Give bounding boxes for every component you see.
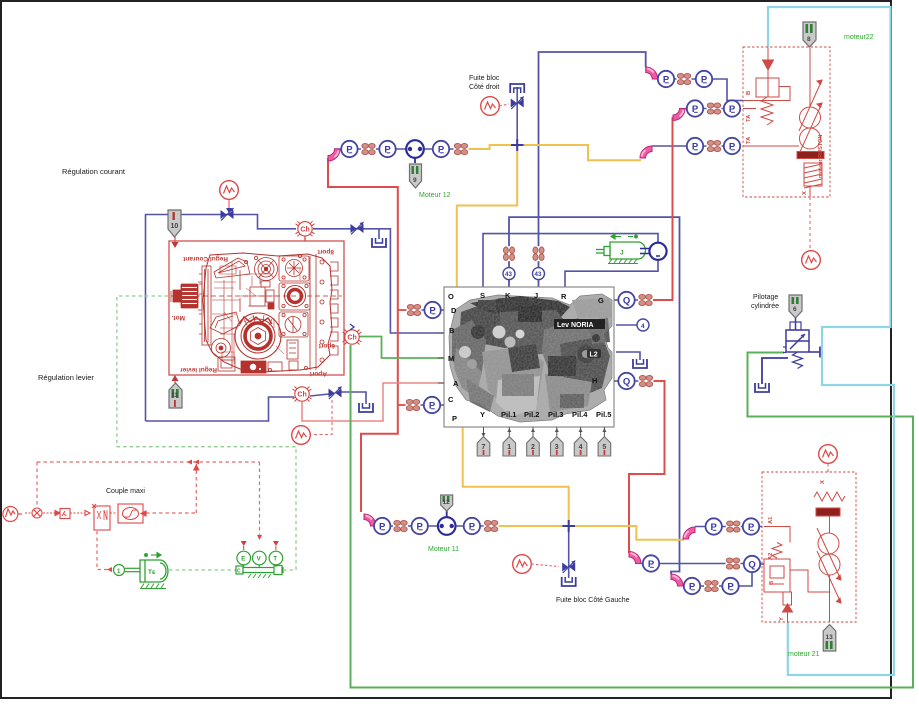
moteur22 relief valve square: [756, 78, 779, 97]
svg-text:J: J: [534, 291, 538, 300]
svg-text:Couple maxi: Couple maxi: [106, 488, 145, 495]
svg-text:10: 10: [171, 223, 179, 230]
wire: red branch into C row coupler: [398, 404, 406, 406]
moteur21 outer box: [762, 472, 856, 622]
wire: navy regulation loop left (pump 10port circuit): [146, 215, 297, 422]
moteur22 internal port lines: [743, 87, 790, 101]
wire: thin red A port net from Aport valve: [302, 383, 444, 421]
wire: navy moteur22 row1: [657, 79, 743, 101]
motor circle moteur11: [438, 517, 456, 535]
flywheel circle: [649, 243, 666, 260]
svg-text:E: E: [241, 557, 245, 563]
wire: navy moteur21 row2: [641, 563, 745, 565]
svg-text:D: D: [451, 306, 457, 315]
wire: red G port net up to moteur22 row2 elbow: [652, 117, 673, 300]
motor J arrows: [611, 234, 637, 239]
green motor J body: [596, 242, 645, 259]
red arrow from tank 10 into pump box: [172, 242, 179, 248]
motor circle moteur12: [406, 140, 424, 158]
svg-text:Moteur 11: Moteur 11: [428, 546, 459, 553]
svg-text:P: P: [452, 414, 457, 423]
wire: navy S port to flywheel circle top: [483, 234, 658, 287]
elbow moteur12 left: [328, 149, 340, 161]
moteur22 outer box: [743, 47, 830, 197]
red flags above E and T: [241, 541, 279, 550]
svg-text:moteur22: moteur22: [844, 34, 874, 41]
P sensor: [433, 141, 449, 157]
svg-text:12: 12: [443, 499, 451, 506]
wire: green dashed shaft feedback pump to torque sensor: [117, 296, 296, 570]
wire: navy stub block right to circle 4: [616, 324, 637, 326]
svg-text:Regul Courant: Regul Courant: [182, 255, 228, 262]
pump bottom housing details: [218, 357, 235, 371]
motor J hatch: [608, 259, 638, 264]
P sensor row1: [696, 71, 712, 87]
P sensor on C row: [424, 397, 440, 413]
svg-text:C: C: [448, 395, 454, 404]
svg-text:8port: 8port: [317, 248, 334, 255]
svg-text:Regul levier: Regul levier: [180, 366, 217, 373]
tank bracket drain near pump top: [372, 238, 386, 247]
coupler m21 row3: [704, 580, 719, 593]
elbow row1: [646, 67, 658, 79]
P sensor on D row: [424, 302, 440, 318]
svg-text:X: X: [802, 191, 808, 195]
wire: navy moteur22 row2: [685, 108, 740, 110]
P sensor m21 row3: [722, 578, 738, 594]
moteur22 dashed pilot to gauge: [809, 197, 811, 250]
svg-text:Régulation courant: Régulation courant: [62, 167, 126, 176]
svg-text:K: K: [505, 291, 511, 300]
wire: navy C port row: [406, 404, 444, 406]
pilotage proportional valve: [783, 318, 809, 369]
tank 9 under moteur12: [410, 164, 422, 188]
P sensor: [412, 518, 428, 534]
svg-text:R: R: [561, 292, 567, 301]
svg-text:TA: TA: [746, 114, 752, 122]
center block frame: [444, 287, 614, 427]
svg-text:1: 1: [507, 444, 511, 451]
svg-text:Y: Y: [480, 410, 485, 419]
wire: yellow moteur11 row to moteur21 row1 elbow: [497, 526, 684, 540]
wire: navy fuite gauche valve drop from yellow junction: [568, 526, 570, 578]
gain block k: [60, 509, 90, 519]
svg-text:3: 3: [555, 444, 559, 451]
tank 13 under moteur21: [823, 625, 836, 652]
svg-text:G: G: [598, 296, 604, 305]
wire: red dashed drop to multiplier: [36, 462, 38, 506]
svg-text:B: B: [769, 581, 775, 585]
svg-text:Pil.1: Pil.1: [501, 410, 516, 419]
tank 10 above pump box: [168, 210, 181, 237]
label Lev NORIA: [554, 319, 605, 329]
svg-text:J: J: [620, 250, 624, 257]
pump lower right cylinder: [287, 340, 298, 359]
tank bracket (inverted) above fuite droit valve: [510, 84, 524, 93]
svg-text:13: 13: [826, 634, 834, 641]
elbow row2 (from G red line): [673, 109, 685, 121]
svg-text:cylindrée: cylindrée: [751, 303, 779, 310]
wire: green big loop from Ch 6port to pilotage valve: [351, 345, 914, 688]
wire: navy pilotage valve right stub to cyan line: [809, 351, 820, 353]
wire: cyan pilot net moteur21 Y to moteur22 T: [768, 7, 894, 675]
circle 4 sensor right of block: [637, 319, 649, 331]
svg-text:B: B: [449, 326, 455, 335]
wire: red dashed couple maxi feedback bus: [37, 461, 260, 463]
moteur22 hydraulic motor: [809, 48, 811, 107]
svg-text:11: 11: [171, 392, 178, 399]
svg-text:Côté droit: Côté droit: [469, 84, 499, 91]
wire: navy L2 port to tank bracket: [616, 352, 640, 360]
wire: yellow P port net down to moteur11 junction: [463, 427, 569, 526]
svg-text:C: C: [237, 569, 241, 575]
pump main casing outline: [203, 253, 332, 372]
label L2: [587, 349, 601, 358]
tank 8 above moteur22: [803, 22, 816, 47]
tank bracket for L2: [633, 359, 647, 368]
tank bracket for Aport drain: [359, 403, 373, 412]
svg-text:4: 4: [579, 444, 583, 451]
svg-text:Pil.2: Pil.2: [524, 410, 539, 419]
coupler on D row: [407, 304, 422, 317]
wire: navy moteur11 row line: [376, 525, 497, 527]
moteur21 internal lines: [764, 527, 790, 543]
wire: green M port net from Ch 6port: [359, 337, 444, 359]
moteur21 outlet with arrow: [783, 592, 792, 605]
svg-text:T: T: [273, 557, 277, 563]
svg-text:A: A: [453, 379, 459, 388]
svg-text:A2: A2: [768, 553, 774, 560]
svg-text:Fuite bloc: Fuite bloc: [469, 75, 500, 82]
pump shaft spline comb: [173, 284, 198, 308]
svg-text:M: M: [448, 354, 454, 363]
svg-text:Pil.5: Pil.5: [596, 410, 611, 419]
moteur22 inlet T line with arrow: [767, 48, 769, 60]
center block photo drawing: [449, 294, 612, 422]
X valve right of Aport: [329, 387, 342, 400]
gauge above pump inlet X valve: [220, 181, 239, 200]
wire: red branch into D row coupler: [398, 309, 407, 311]
wire: navy moteur21 row1 into valve A1: [695, 526, 762, 528]
block port labels: [448, 291, 611, 423]
wire: red dashed saturation output feedback: [195, 462, 197, 513]
wire: navy fuite droit valve drop to yellow junction: [516, 87, 518, 145]
svg-text:Régulation levier: Régulation levier: [38, 373, 94, 382]
coupler row3: [707, 140, 722, 153]
wire: green stub Ch to pump box: [344, 336, 346, 338]
coupler under J port: [532, 246, 545, 261]
P sensor row2: [724, 100, 740, 116]
wire: red dashed minmax block down to engine input circle: [97, 531, 112, 570]
coupler row2: [707, 102, 722, 115]
svg-text:X: X: [820, 480, 826, 484]
moteur21 valve square: [764, 559, 790, 592]
Q sensor on H row: [618, 373, 634, 389]
left edge port stubs: [438, 300, 620, 405]
pump outer red box: [169, 241, 344, 375]
Q sensor m21 row2: [744, 556, 760, 572]
moteur21 top spring and brake: [814, 492, 845, 501]
coupler m21 row1: [726, 520, 741, 533]
coupling to flywheel: [640, 248, 649, 250]
svg-text:Pil.3: Pil.3: [548, 410, 563, 419]
pilot tanks 7 and 1-5 under block: [477, 437, 610, 457]
moteur21 valve spring above: [772, 543, 782, 559]
moteur21 hydraulic motor: [818, 533, 839, 554]
Ch valve 8port above pump box: [296, 221, 315, 236]
wire: drain stub to tank bracket near pump top: [378, 229, 380, 239]
wire: navy R port to flywheel circle bottom: [565, 259, 658, 287]
pump lower-left bearing circle: [212, 339, 231, 358]
coupler: [454, 143, 469, 156]
wire: navy H port row: [614, 380, 652, 382]
svg-text:6: 6: [793, 306, 797, 313]
tank 11 below pump box: [169, 383, 182, 408]
svg-text:4: 4: [641, 323, 645, 330]
junction cross on yellow at fuite gauche: [562, 520, 575, 532]
svg-text:H: H: [592, 376, 597, 385]
multiplier circle: [25, 508, 60, 518]
engine hatch: [140, 584, 166, 589]
pump top boss circles: [255, 258, 278, 281]
gauge below Aport with dashed line: [313, 400, 332, 435]
P sensor row2: [687, 100, 703, 116]
coupler row1: [677, 73, 692, 86]
wire: navy G port row: [614, 299, 652, 301]
svg-text:7: 7: [482, 444, 486, 451]
svg-text:Lev NORIA: Lev NORIA: [557, 322, 594, 329]
P sensor row3: [724, 138, 740, 154]
P sensor row1: [658, 71, 674, 87]
wire: navy moteur21 row3 and rise to Q circle: [683, 571, 752, 586]
elbow row3 (from yellow): [640, 146, 652, 158]
pump right end flange scallops: [310, 254, 316, 370]
svg-text:O: O: [448, 292, 454, 301]
svg-text:Fuite bloc Côté Gauche: Fuite bloc Côté Gauche: [556, 597, 630, 604]
pump right valve section upper: [279, 256, 309, 281]
Ch valve 6port right of pump box: [343, 330, 362, 345]
gauge fuite droit: [481, 97, 500, 116]
coupler: [361, 143, 376, 156]
X valve fuite droit: [511, 97, 524, 110]
torque sensor ground hatch: [248, 574, 271, 578]
pump mounting flange: [202, 266, 211, 345]
pump bitmap drawing: [171, 253, 342, 373]
X valve fuite gauche: [562, 561, 575, 574]
svg-text:S: S: [480, 291, 485, 300]
wire: yellow net moteur12 to moteur22 row3: [467, 145, 641, 160]
svg-text:V: V: [257, 557, 261, 563]
P sensor: [379, 141, 395, 157]
P sensor: [464, 518, 480, 534]
elbow moteur21 row1 (yellow): [683, 527, 695, 539]
junction cross on yellow line: [511, 139, 524, 151]
coupler on C row: [406, 399, 421, 412]
gauge under moteur22: [802, 251, 821, 270]
pump swash bracket: [210, 312, 240, 334]
arrows on feedback bus: [187, 460, 192, 465]
svg-text:B: B: [746, 91, 752, 95]
check circle 43 under K coupler: [503, 268, 515, 280]
wire: navy J net from block J port up and over to moteur22 row1: [539, 52, 646, 287]
coupler m21 row2: [726, 557, 741, 570]
bottom port stubs with arrows and tanks: [482, 427, 607, 437]
X valve on regulation line: [221, 208, 234, 221]
Q sensor on G row: [618, 292, 634, 308]
P sensor: [341, 141, 357, 157]
svg-text:Aport: Aport: [309, 370, 327, 377]
X valve right of 8port: [351, 222, 364, 235]
moteur22 rotated labels: [746, 91, 824, 195]
coupler: [393, 520, 408, 533]
gauge above moteur21: [819, 445, 838, 464]
svg-text:Pil.4: Pil.4: [572, 410, 588, 419]
moteur21 rotated labels: [768, 480, 826, 621]
wire: navy K net from block K port up right and down to moteur21 row3: [509, 217, 680, 574]
svg-text:L2: L2: [590, 352, 598, 359]
wire: red dashed bus down to V gauge: [259, 462, 261, 540]
saturation block: [118, 465, 199, 523]
wire: navy Q circle to valve A2: [758, 563, 764, 565]
gauge fuite gauche: [513, 555, 532, 574]
tank 6: [789, 295, 802, 318]
wire: navy from Ch 8port to X valve and drain node: [313, 229, 444, 333]
pump right valve section middle: [279, 283, 310, 310]
svg-text:A1: A1: [768, 516, 774, 524]
wire: red H port net down to moteur21 row2 elbow: [629, 381, 665, 553]
wire: navy from Aport valve to X valve and tank: [310, 394, 329, 396]
pump big rotary group: [235, 313, 281, 359]
svg-text:Moteur 12: Moteur 12: [419, 192, 451, 199]
tank 12 above moteur11: [441, 495, 453, 511]
wire: yellow branch down to O port: [457, 145, 517, 287]
svg-text:2: 2: [531, 444, 535, 451]
engine input circle 1: [114, 565, 141, 576]
coupler: [484, 520, 499, 533]
P sensor m21 row3: [684, 578, 700, 594]
wire: red dashed chain saturation to bus with arrows: [146, 512, 196, 514]
svg-text:moteur 21: moteur 21: [788, 651, 820, 658]
pump right valve section lower: [279, 312, 308, 337]
wire: green dashed engine shaft link: [169, 569, 236, 571]
svg-text:Mot.: Mot.: [171, 314, 185, 321]
torque sensor assembly E V T: [236, 551, 283, 574]
red arrow up from tank 11 into pump box: [172, 375, 179, 381]
moteur22 relief spring: [761, 97, 773, 125]
pump top bracket: [214, 258, 250, 278]
svg-text:8: 8: [807, 36, 811, 43]
svg-text:Y: Y: [779, 617, 785, 621]
svg-text:5: 5: [602, 444, 606, 451]
wire: navy pilot line from pilotage valve to tank bracket: [762, 358, 788, 384]
P sensor row3: [687, 138, 703, 154]
moteur22 brake block: [797, 152, 824, 159]
P sensor m21 row2: [643, 555, 659, 571]
wire: navy bottom of regulation loop to Aport valve: [146, 397, 295, 421]
check circle 43 under J coupler: [533, 268, 545, 280]
coupler on H row: [639, 375, 654, 388]
P sensor m21 row1: [743, 518, 759, 534]
pump center plate: [250, 287, 265, 306]
svg-text:9: 9: [413, 177, 417, 184]
P sensor m21 row1: [706, 518, 722, 534]
coupler on G row: [638, 294, 653, 307]
elbow m21 row2: [629, 552, 641, 564]
svg-text:TA: TA: [746, 136, 752, 144]
svg-text:Pilotage: Pilotage: [753, 294, 778, 301]
tank bracket pilotage: [755, 383, 769, 392]
engine body: [140, 560, 168, 582]
P sensor: [374, 518, 390, 534]
wire: red D/C distribution net from moteur12 elbow down to moteur11 elbow: [328, 158, 398, 512]
pump dashed centerline: [171, 295, 342, 297]
Ch valve Aport below pump box: [293, 387, 312, 402]
wire: navy moteur22 row3 from yellow elbow: [652, 145, 740, 147]
pump misc internal lines: [224, 262, 278, 362]
svg-text:moteur RUSTON: moteur RUSTON: [818, 135, 824, 178]
elbow m21 row3: [671, 574, 683, 586]
signal source circle: [3, 507, 22, 522]
wire: navy D port row: [406, 309, 444, 311]
svg-text:Tᴇ: Tᴇ: [148, 569, 156, 576]
tank bracket fuite gauche: [562, 577, 576, 586]
elbow moteur11 left: [364, 514, 376, 526]
wire: navy moteur12 row line: [334, 148, 455, 150]
engine top arrows: [145, 553, 161, 558]
minmax block: [92, 504, 116, 530]
coupler under K port: [503, 246, 516, 261]
